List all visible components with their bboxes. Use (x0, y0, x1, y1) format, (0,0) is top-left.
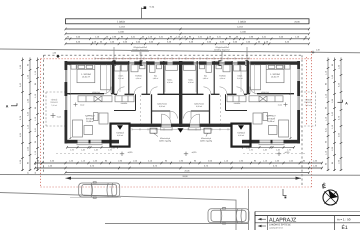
exterior wall right (297, 61, 300, 144)
svg-text:1,75: 1,75 (287, 148, 291, 151)
svg-text:1,75: 1,75 (70, 148, 74, 151)
svg-text:1. SZOBA: 1. SZOBA (270, 73, 280, 76)
svg-text:1,40: 1,40 (81, 148, 85, 151)
svg-text:kültéri egység: kültéri egység (159, 140, 171, 143)
storage block left (111, 124, 130, 147)
svg-text:3,20 m²: 3,20 m² (159, 105, 165, 108)
right unit sofa (279, 120, 289, 137)
chimney blocks (113, 60, 116, 66)
left unit kitchen counter (78, 96, 112, 102)
left unit hall north wall (114, 93, 117, 95)
svg-text:+0,30: +0,30 (192, 151, 197, 154)
svg-text:7,20 m²: 7,20 m² (51, 104, 57, 107)
window dim ticks above wall (94, 57, 96, 59)
interior dim line right unit (290, 64, 292, 139)
right unit wall bath/wc (213, 61, 215, 94)
svg-text:ALAPRAJZ: ALAPRAJZ (269, 217, 297, 223)
terrace door left wall (65, 96, 68, 110)
windows bottom left wall (78, 140, 89, 144)
eave red dashed top (41, 58, 312, 60)
dimension line total (66, 28, 310, 30)
right unit bed (266, 65, 284, 83)
windows bottom right wall (260, 140, 271, 144)
bottom dim total (66, 172, 310, 174)
left unit wall room1/bath (128, 61, 130, 94)
svg-text:TÁROLÓ: TÁROLÓ (237, 132, 245, 135)
roof edge dashed right (220, 95, 222, 124)
roof outline red dashed right (311, 51, 313, 187)
svg-text:45: 45 (27, 172, 30, 174)
svg-text:KONYHA: KONYHA (261, 91, 269, 94)
interior dim line left unit (70, 64, 72, 139)
svg-text:TÁROLÓ: TÁROLÓ (116, 132, 124, 135)
svg-text:1,40: 1,40 (94, 148, 98, 151)
left dim chain 1 (22, 58, 24, 172)
svg-text:TERASZ: TERASZ (304, 101, 312, 104)
svg-text:1. SZOBA: 1. SZOBA (81, 73, 91, 76)
dim line under left block (67, 146, 118, 148)
svg-text:±0,00: ±0,00 (278, 103, 282, 106)
exterior wall bottom left block (65, 140, 120, 144)
right unit kitchen counter (249, 96, 283, 102)
kerb line lower (105, 223, 249, 225)
svg-text:+0,20: +0,20 (128, 151, 133, 154)
svg-text:+0,45: +0,45 (57, 115, 62, 118)
entrance door arc left (162, 114, 172, 124)
right unit wall hall (209, 94, 211, 123)
svg-text:4,20 m²: 4,20 m² (220, 77, 226, 80)
right dim chain 2 (334, 58, 336, 172)
left unit pantry wall (114, 110, 136, 112)
left unit shower (131, 65, 138, 72)
exterior wall bottom right block (242, 140, 300, 144)
left unit wc sink (157, 65, 162, 69)
svg-text:+3,04: +3,04 (149, 6, 155, 9)
svg-text:25,06 m²: 25,06 m² (86, 120, 94, 123)
left unit washing machine (115, 65, 121, 71)
right unit wall room1/bath (231, 61, 233, 94)
roof outline red dashed left (40, 59, 42, 187)
svg-text:6,28 m²: 6,28 m² (167, 81, 173, 84)
left unit hall closet (166, 65, 178, 71)
svg-text:KAMRA: KAMRA (121, 102, 128, 105)
svg-text:ÉTKEZŐ: ÉTKEZŐ (267, 117, 276, 120)
right unit door arc hall (184, 111, 192, 119)
svg-text:4,20 m²: 4,20 m² (136, 77, 142, 80)
paving dashed left (56, 153, 118, 155)
left unit wall bath/wc (146, 61, 148, 94)
right unit wall bedroom/bath (247, 61, 250, 94)
svg-text:KONYHA: KONYHA (92, 91, 100, 94)
svg-text:1 lakás: 1 lakás (117, 21, 126, 24)
svg-text:LAKÓHÁZ ÉPÍTÉSE: LAKÓHÁZ ÉPÍTÉSE (269, 223, 291, 227)
left unit door arc hall (170, 111, 178, 119)
threshold right (189, 127, 201, 130)
window sill left block (77, 144, 103, 146)
bottom dim chain rooms (35, 167, 322, 169)
parking space line (70, 196, 121, 198)
left unit hall south wall (152, 110, 171, 112)
interior dim lines wet rooms (119, 66, 121, 92)
left unit sofa (73, 120, 83, 137)
svg-text:A: A (6, 105, 9, 109)
right unit pantry wall (226, 110, 248, 112)
right unit door arc bath2 (220, 87, 228, 95)
road edge vertical (248, 189, 250, 230)
lower site boundary line (0, 174, 360, 177)
svg-text:hőszivattyú: hőszivattyú (201, 137, 211, 140)
window sill right block (259, 144, 285, 146)
site boundary line (0, 49, 360, 53)
left unit wall hall (151, 94, 153, 123)
right unit dining table (253, 113, 262, 124)
datum level flag (141, 8, 143, 19)
windows top wall (129, 61, 134, 64)
right unit door arc room1 (237, 87, 245, 95)
left unit door arc wc (150, 87, 158, 95)
svg-text:95: 95 (34, 172, 37, 174)
bottom dim chain detailed (35, 162, 322, 164)
svg-text:12,88: 12,88 (118, 31, 124, 34)
svg-text:4,30: 4,30 (316, 49, 320, 52)
entrance arrow left (117, 125, 123, 130)
svg-text:É1: É1 (342, 224, 348, 230)
right dim chain 3 (340, 58, 342, 172)
svg-text:1,40: 1,40 (263, 148, 267, 151)
right unit shower (223, 65, 230, 72)
right unit door arc bedroom (250, 87, 257, 94)
dimension chain detailed (66, 38, 310, 40)
svg-text:15,01 m²: 15,01 m² (82, 76, 90, 79)
level mark +0,30 (184, 153, 188, 155)
dim line under right block (243, 146, 294, 148)
svg-text:ÉTKEZŐ: ÉTKEZŐ (86, 117, 95, 120)
svg-text:3,01 m²: 3,01 m² (118, 77, 124, 80)
kerb line sloping (0, 193, 236, 231)
svg-text:3,01 m²: 3,01 m² (237, 77, 243, 80)
left dim chain 2 (29, 58, 31, 172)
svg-text:7,20 m²: 7,20 m² (305, 104, 311, 107)
svg-text:NAPPALI+: NAPPALI+ (85, 115, 96, 118)
window right wall (297, 69, 300, 81)
right unit tv cabinet (263, 113, 268, 121)
dimension chain openings (66, 43, 310, 45)
svg-text:3,20 m²: 3,20 m² (196, 105, 202, 108)
svg-text:25,06: 25,06 (184, 169, 190, 172)
dimension line 12,88 (66, 33, 310, 35)
exterior wall left (65, 61, 68, 144)
right unit wc fixture (206, 65, 212, 73)
overall dimension bar (66, 19, 310, 24)
storage block right (232, 124, 251, 147)
svg-text:4,30: 4,30 (52, 52, 56, 55)
svg-text:1,40: 1,40 (276, 148, 280, 151)
entrance arrow right (238, 125, 244, 130)
svg-text:6,28 m²: 6,28 m² (188, 81, 194, 84)
terrace right dashed (301, 91, 316, 93)
heat pump right (204, 128, 211, 133)
svg-text:±0,00: ±0,00 (80, 103, 84, 106)
svg-text:4,32 m²: 4,32 m² (117, 134, 123, 137)
entrance door arc right (190, 114, 200, 124)
svg-text:kültéri egység: kültéri egység (200, 140, 212, 143)
car 1 (79, 182, 120, 198)
svg-text:1,75: 1,75 (249, 148, 253, 151)
svg-text:12,88: 12,88 (240, 31, 246, 34)
roof edge dashed left (140, 95, 142, 124)
svg-text:28,00: 28,00 (182, 175, 188, 178)
car 2 (208, 208, 249, 224)
north arrow (321, 181, 338, 205)
svg-text:12,53: 12,53 (237, 26, 243, 29)
exterior wall top (65, 61, 301, 64)
svg-text:NAPPALI+: NAPPALI+ (266, 115, 277, 118)
window left wall (65, 70, 68, 82)
level mark entry left (74, 104, 78, 106)
left unit tv cabinet (94, 113, 99, 121)
overall arrow dimension (66, 177, 302, 179)
level mark +0,20 (120, 153, 124, 155)
left dim chain 3 (37, 58, 39, 172)
svg-text:1,85 m²: 1,85 m² (153, 77, 159, 80)
vent leader lines (113, 47, 115, 66)
left unit door arc bath2 (134, 87, 142, 95)
right unit wall wc/corridor (196, 61, 198, 94)
svg-text:25,06 m²: 25,06 m² (267, 120, 275, 123)
right unit wc sink (200, 65, 205, 69)
paving dashed right (243, 153, 305, 155)
left unit bedroom south wall (67, 93, 104, 95)
roof outline red dashed bottom (41, 186, 312, 188)
window dim ticks below center wall (131, 128, 133, 130)
gate post marker (283, 189, 287, 196)
heat pump left (150, 128, 157, 133)
terrace left dashed (46, 91, 65, 93)
left unit wall bedroom/bath (112, 61, 115, 94)
setback dashed line (44, 54, 303, 56)
left unit dining table (99, 113, 108, 124)
left unit wall wc/corridor (163, 61, 165, 94)
svg-text:hőszivattyú: hőszivattyú (160, 137, 170, 140)
right unit hall north wall (244, 93, 247, 95)
right unit hall closet (184, 65, 196, 71)
svg-text:1,85 m²: 1,85 m² (203, 77, 209, 80)
threshold left (160, 127, 172, 130)
left unit wardrobe (101, 65, 111, 90)
svg-text:1,75: 1,75 (108, 148, 112, 151)
svg-text:Lakóépület terve: Lakóépület terve (269, 227, 283, 230)
windows center wall (162, 124, 172, 127)
right unit washing machine (240, 65, 246, 71)
right dim chain 1 (327, 58, 329, 172)
svg-text:12,53: 12,53 (119, 26, 125, 29)
right unit wardrobe (251, 65, 261, 90)
level mark +0,30 right (277, 153, 281, 155)
svg-text:1 lakás: 1 lakás (238, 21, 247, 24)
svg-text:m = 1 : 50: m = 1 : 50 (337, 217, 351, 221)
left unit wc fixture (150, 65, 156, 73)
left unit door arc bedroom (104, 87, 111, 94)
svg-text:TÉRKŐ: TÉRKŐ (305, 99, 312, 102)
svg-text:KAMRA: KAMRA (234, 102, 241, 105)
svg-text:TERASZ: TERASZ (50, 101, 58, 104)
svg-text:15,01 m²: 15,01 m² (271, 76, 279, 79)
svg-text:4,32 m²: 4,32 m² (238, 134, 244, 137)
right unit door arc wc (204, 87, 212, 95)
left unit door arc room1 (117, 87, 125, 95)
roof eave red dashed right inner (305, 57, 307, 126)
terrace door right wall (297, 96, 300, 110)
level mark entry right (284, 104, 288, 106)
svg-text:25,06: 25,06 (294, 21, 300, 24)
right unit hall south wall (191, 110, 210, 112)
svg-text:TÉRKŐ: TÉRKŐ (51, 99, 58, 102)
party wall (179, 61, 182, 127)
exterior wall bottom center (130, 124, 232, 127)
right unit bedroom south wall (257, 93, 294, 95)
left unit bed (77, 65, 95, 83)
title block (255, 212, 360, 232)
section arrow center (178, 128, 184, 133)
